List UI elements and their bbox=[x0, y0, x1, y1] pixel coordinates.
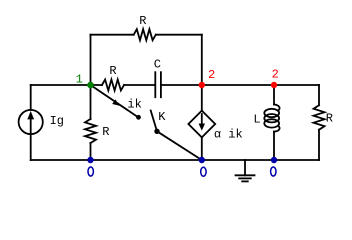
svg-text:ik: ik bbox=[127, 97, 141, 111]
wire node 2 down to diamond bbox=[201, 85, 203, 111]
node 0 dot left (blue) bbox=[87, 157, 93, 163]
svg-text:R: R bbox=[102, 125, 109, 139]
capacitor C plates bbox=[154, 72, 156, 97]
svg-text:2: 2 bbox=[272, 68, 279, 82]
dependent current source diamond bbox=[188, 111, 215, 138]
wire rail to capacitor bbox=[124, 84, 154, 86]
dependent source arrowhead bbox=[199, 124, 205, 131]
ground bar 3 bbox=[242, 180, 248, 182]
svg-text:L: L bbox=[253, 113, 260, 127]
wire node 2b down to inductor bbox=[273, 85, 275, 105]
svg-text:K: K bbox=[158, 110, 166, 124]
current source Ig arrowhead bbox=[27, 111, 34, 119]
inductor L coil bbox=[274, 105, 280, 111]
current source Ig circle bbox=[19, 110, 43, 134]
node 1 dot (green) bbox=[87, 82, 94, 89]
wire top loop right vertical bbox=[201, 35, 203, 85]
switch K lever bbox=[151, 111, 157, 132]
node 0 dot middle (blue) bbox=[199, 157, 205, 163]
node 2 dot (red) bbox=[199, 82, 205, 88]
svg-text:C: C bbox=[154, 57, 161, 71]
wire diamond to bottom node 0 bbox=[201, 137, 203, 160]
switch contact dot 2 bbox=[154, 129, 159, 134]
svg-text:Ig: Ig bbox=[50, 114, 64, 128]
ground stem bbox=[244, 160, 246, 175]
svg-text:R: R bbox=[139, 14, 146, 28]
current source Ig arrow shaft bbox=[30, 116, 32, 133]
wire switch to bottom node 0 bbox=[157, 131, 202, 160]
resistor R (right) bbox=[314, 105, 325, 130]
label node 0 right bbox=[271, 167, 276, 176]
ik arrowhead on switch wire bbox=[112, 99, 119, 105]
resistor R (top) bbox=[134, 29, 156, 40]
wire right branch lower bbox=[318, 130, 320, 160]
wire left branch lower bbox=[30, 134, 32, 160]
wire bottom rail bbox=[31, 159, 319, 161]
svg-text:2: 2 bbox=[208, 68, 215, 82]
wire main rail left segment bbox=[31, 84, 102, 86]
svg-text:1: 1 bbox=[76, 73, 83, 87]
node 0 dot right (blue) bbox=[271, 157, 277, 163]
label node 0 left bbox=[88, 167, 93, 176]
ground bar 1 bbox=[236, 174, 255, 176]
dependent source arrow shaft bbox=[201, 114, 203, 126]
node 2b dot (red) bbox=[271, 82, 277, 88]
wire top rail right segment bbox=[156, 34, 202, 36]
switch contact dot 1 bbox=[136, 115, 141, 120]
wire rail capacitor to right edge bbox=[161, 84, 319, 86]
wire left branch upper bbox=[30, 85, 32, 110]
wire top rail left segment bbox=[91, 34, 134, 36]
wire node 1 down to resistor bbox=[90, 85, 92, 119]
svg-text:R: R bbox=[326, 112, 333, 126]
wire switch segment from node 1 with ik arrow bbox=[91, 85, 139, 118]
resistor R (below node 1) bbox=[85, 119, 96, 143]
wire top loop left vertical bbox=[90, 35, 92, 85]
label node 0 middle bbox=[201, 167, 206, 176]
resistor R (middle, between node 1 and C) bbox=[102, 80, 124, 91]
wire inductor to bottom node 0 bbox=[273, 132, 275, 160]
svg-text:α ik: α ik bbox=[214, 127, 243, 141]
wire resistor to bottom node 0 bbox=[90, 143, 92, 160]
svg-text:R: R bbox=[109, 64, 116, 78]
ground bar 2 bbox=[239, 177, 251, 179]
wire right branch upper bbox=[318, 85, 320, 105]
